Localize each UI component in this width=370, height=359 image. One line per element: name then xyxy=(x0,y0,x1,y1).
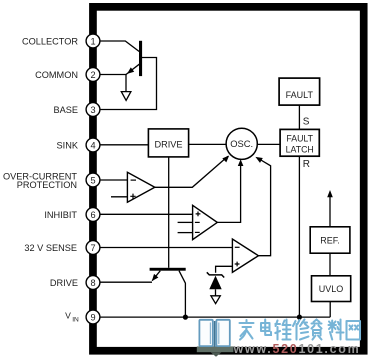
wire U2 output to OSC xyxy=(217,163,240,223)
svg-text:UVLO: UVLO xyxy=(319,284,344,294)
svg-text:COMMON: COMMON xyxy=(35,70,78,80)
svg-text:32 V SENSE: 32 V SENSE xyxy=(24,243,77,253)
block UVLO xyxy=(312,276,351,302)
wire FAULT LATCH R to VIN rail xyxy=(298,156,300,317)
wire U3 non-inverting input to zener D1 xyxy=(216,266,233,273)
svg-text:COLLECTOR: COLLECTOR xyxy=(22,36,78,46)
watermark chinese text jia xyxy=(240,320,254,340)
svg-text:DRIVE: DRIVE xyxy=(50,278,78,288)
junction dot R line on VIN rail xyxy=(297,315,302,320)
svg-text:DRIVE: DRIVE xyxy=(154,140,182,150)
svg-text:INHIBIT: INHIBIT xyxy=(44,210,77,220)
wire pin5 to comparator U1 inverting input xyxy=(100,179,128,181)
wire U3 output to OSC xyxy=(258,158,271,256)
svg-text:2: 2 xyxy=(90,70,95,80)
watermark chinese text liao xyxy=(329,320,344,340)
pin 1 COLLECTOR xyxy=(22,34,100,48)
zener diode D1 cathode bar xyxy=(207,272,224,277)
wire VIN rail pin9 xyxy=(100,316,330,318)
IC package boundary frame xyxy=(93,7,364,351)
svg-text:FAULT: FAULT xyxy=(286,90,314,100)
comparator U2 xyxy=(193,205,218,239)
wire U1 output to OSC xyxy=(155,156,228,187)
svg-text:PROTECTION: PROTECTION xyxy=(17,180,77,190)
svg-text:V: V xyxy=(65,310,71,320)
svg-text:OSC.: OSC. xyxy=(230,138,253,149)
watermark book icon xyxy=(197,320,234,357)
wire pin8 to Q2 emitter xyxy=(100,281,152,283)
wire pin1 to Q1 collector xyxy=(100,41,139,52)
pin 4 SINK xyxy=(57,138,100,152)
ground G1 symbol xyxy=(121,92,131,101)
watermark chinese text wang xyxy=(347,321,361,340)
stub U1 non-inverting input xyxy=(111,196,127,198)
pin 6 INHIBIT xyxy=(44,208,100,222)
svg-text:SINK: SINK xyxy=(57,140,79,150)
ground G1 stem xyxy=(125,75,127,92)
wire pin2 to Q1 emitter node xyxy=(100,74,126,76)
svg-text:7: 7 xyxy=(90,243,95,253)
transistor Q2 emitter lead xyxy=(152,271,160,281)
pin 5 OVER-CURRENT PROTECTION xyxy=(3,171,100,190)
block FAULT xyxy=(279,78,320,105)
svg-text:8: 8 xyxy=(90,278,95,288)
stub U2 inverting input 2 xyxy=(178,232,193,234)
wire DRIVE output to Q2 base xyxy=(168,157,170,268)
svg-text:9: 9 xyxy=(90,312,95,322)
junction dot Q2 collector on VIN rail xyxy=(183,315,188,320)
arrow U2 into OSC xyxy=(238,159,244,166)
wire REF output xyxy=(329,196,331,227)
watermark chinese text wei xyxy=(275,320,290,340)
wire pin3 to Q1 base xyxy=(100,58,157,110)
svg-text:4: 4 xyxy=(90,140,95,150)
pin 7 32 V SENSE xyxy=(24,241,100,255)
block REF xyxy=(310,227,350,253)
svg-text:R: R xyxy=(303,159,310,170)
wire pin4 to DRIVE block xyxy=(100,144,148,146)
svg-text:IN: IN xyxy=(72,316,79,323)
svg-text:LATCH: LATCH xyxy=(286,144,314,154)
ground G2 symbol xyxy=(211,296,220,304)
svg-text:FAULT: FAULT xyxy=(286,133,313,143)
svg-text:6: 6 xyxy=(90,210,95,220)
block FAULT LATCH xyxy=(280,129,319,156)
transistor Q2 base bar xyxy=(150,268,186,271)
svg-text:1: 1 xyxy=(90,36,95,46)
wire UVLO to VIN rail xyxy=(329,302,331,318)
wire pin7 to comparator U3 inverting input xyxy=(100,247,233,249)
svg-text:BASE: BASE xyxy=(53,105,78,115)
pin 8 DRIVE xyxy=(50,276,100,290)
wire pin6 to comparator U2 xyxy=(100,213,193,215)
wire OSC to FAULT LATCH xyxy=(257,143,280,145)
pin 2 COMMON xyxy=(35,68,100,82)
comparator U3 xyxy=(232,239,258,272)
watermark chinese text dian xyxy=(261,320,271,336)
transistor Q1 base bar xyxy=(139,41,142,76)
svg-text:S: S xyxy=(303,117,310,128)
wire DRIVE to OSC xyxy=(189,143,227,145)
transistor Q1 emitter lead xyxy=(126,64,139,74)
comparator U1 xyxy=(127,172,154,202)
transistor Q2 emitter arrow xyxy=(152,274,159,281)
arrow U3 into OSC xyxy=(255,157,262,163)
transistor Q1 emitter arrow xyxy=(127,67,134,74)
watermark chinese text zi xyxy=(312,320,322,340)
svg-text:REF.: REF. xyxy=(320,236,340,246)
pin 9 VIN xyxy=(65,310,100,324)
wire FAULT to FAULT LATCH (S input) xyxy=(298,105,300,129)
zener D1 anode stem xyxy=(215,289,217,296)
pin 3 BASE xyxy=(53,103,99,117)
watermark chinese text xiu xyxy=(293,320,309,340)
block DRIVE xyxy=(148,129,188,157)
oscillator OSC xyxy=(226,128,257,159)
svg-text:www.520101.com: www.520101.com xyxy=(233,342,361,356)
svg-text:5: 5 xyxy=(90,175,95,185)
transistor Q2 collector lead xyxy=(179,271,185,317)
arrow U1 into OSC xyxy=(222,156,229,163)
arrow REF output up xyxy=(327,190,333,197)
svg-text:3: 3 xyxy=(90,105,95,115)
zener diode D1 body xyxy=(209,276,221,290)
wire REF to UVLO xyxy=(329,253,331,276)
stub U2 inverting input 1 xyxy=(178,221,193,223)
